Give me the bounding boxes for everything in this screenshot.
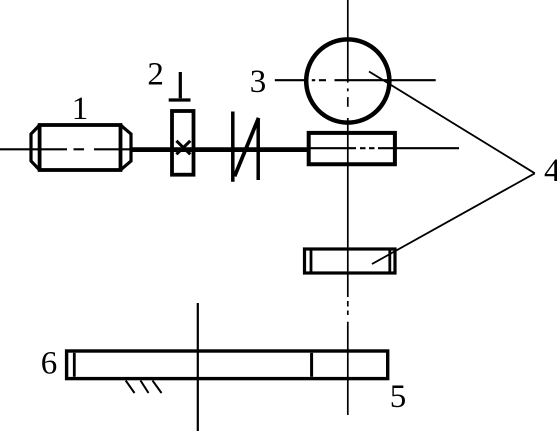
svg-text:6: 6 (41, 346, 58, 382)
svg-text:3: 3 (250, 64, 267, 100)
svg-text:5: 5 (390, 379, 407, 415)
svg-text:4: 4 (544, 153, 557, 189)
svg-text:2: 2 (147, 57, 164, 93)
svg-text:1: 1 (72, 91, 89, 127)
